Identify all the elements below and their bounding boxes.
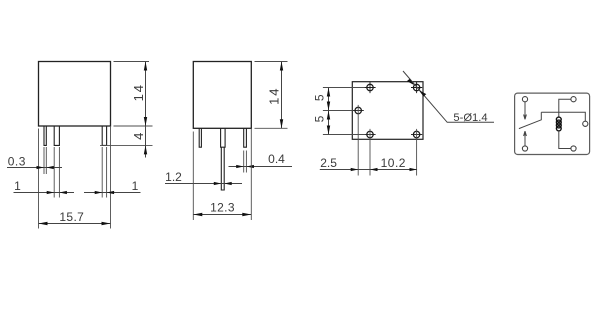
- extension line body left edge: [38, 129, 40, 229]
- wire from blade to right terminal: [541, 112, 585, 121]
- pin C (1mm) front view: [102, 126, 106, 145]
- dimension line 14 side view: [281, 62, 283, 129]
- extension line bottom right side body: [255, 127, 288, 129]
- dimension 0.3 arrows: [37, 166, 54, 169]
- dimension 1 right arrows: [95, 191, 114, 194]
- arrow right at 417: [410, 168, 418, 171]
- arrows of 5/5 dimension: [327, 88, 330, 135]
- svg-text:12.3: 12.3: [210, 201, 235, 215]
- dimension 15.7 arrows: [39, 222, 111, 225]
- extension line top right of front body: [114, 61, 150, 63]
- svg-text:1: 1: [132, 179, 139, 193]
- terminal circle top-left: [522, 97, 527, 102]
- arrow up side 14: [280, 62, 283, 71]
- extension line bottom of front body (right): [114, 125, 153, 127]
- svg-text:0.3: 0.3: [8, 154, 26, 168]
- relay body front view: [39, 62, 111, 127]
- hole H4 bottom-left: [364, 131, 375, 137]
- extension lines below pin B: [54, 147, 59, 198]
- extension lines below pin C: [102, 147, 106, 198]
- extension line from H3 to left: [323, 110, 353, 112]
- arrow left toward 370: [370, 168, 378, 171]
- relay coil: [556, 117, 561, 131]
- NO contact wire with arrow (from bottom-left terminal): [524, 131, 526, 146]
- svg-text:10.2: 10.2: [381, 156, 406, 170]
- pin B (1mm) front view: [54, 126, 59, 145]
- dimension 0.4 arrows: [236, 165, 254, 168]
- svg-text:14: 14: [267, 87, 282, 105]
- extension line side body left: [192, 132, 194, 221]
- dimension 1 right line: [84, 192, 141, 194]
- wire from top-middle terminal to coil: [559, 99, 571, 117]
- dimension 0.3 leader line: [7, 167, 62, 169]
- NC contact wire with arrow (from top-left terminal): [524, 102, 526, 120]
- svg-text:5: 5: [313, 115, 327, 122]
- hole H3 vertical centerline extended to bottom dimension: [357, 105, 359, 176]
- svg-text:1.2: 1.2: [165, 170, 182, 184]
- dimension 12.3 line: [193, 214, 251, 216]
- side view left pin: [199, 128, 201, 147]
- side view middle pin wide part: [221, 128, 226, 147]
- svg-text:2.5: 2.5: [320, 156, 337, 170]
- svg-text:5: 5: [313, 94, 327, 101]
- svg-text:4: 4: [131, 133, 146, 140]
- relay body side view: [193, 62, 251, 129]
- leader line for 5-O1.4: [403, 71, 494, 122]
- svg-text:15.7: 15.7: [59, 210, 84, 224]
- extension lines below right pin: [244, 151, 247, 173]
- wire from coil to bottom-middle terminal: [559, 131, 571, 149]
- dimension 1 left arrows: [47, 191, 67, 194]
- leader arrow upper (pointing to hole): [407, 79, 415, 86]
- schematic enclosure box: [515, 93, 590, 154]
- dimension line 14 / 4 vertical: [145, 62, 147, 158]
- dimension 0.4 line: [229, 166, 293, 168]
- extension line body right edge: [110, 126, 112, 229]
- side view right pin: [244, 128, 247, 147]
- dimension line 5/5 vertical: [328, 88, 330, 135]
- arrow down at 126: [144, 117, 147, 126]
- extension line pin bottom (4mm): [100, 144, 153, 146]
- pin A (0.3mm) front view: [44, 126, 46, 145]
- hole H5 bottom-right: [411, 131, 422, 137]
- terminal circle top-middle: [571, 97, 576, 102]
- terminal circle bottom-middle: [571, 146, 576, 151]
- dimension 1.2 arrows: [214, 182, 232, 185]
- hole H2 top-right: [411, 82, 422, 93]
- extension line from H4 to left: [323, 134, 365, 136]
- pcb outline square: [352, 82, 423, 140]
- hole H3 mid-left: [353, 107, 364, 113]
- terminal circle right (common): [583, 121, 588, 126]
- leader arrow lower (pointing to hole): [419, 90, 427, 97]
- hole H1 top-left: [364, 82, 375, 93]
- svg-text:0.4: 0.4: [268, 152, 285, 166]
- arrow right toward 358.2: [351, 168, 359, 171]
- svg-text:14: 14: [131, 83, 146, 101]
- hole H5 vertical centerline extended to bottom dimension: [416, 129, 418, 176]
- terminal circle bottom-left: [522, 146, 527, 151]
- arrow up at 61.5: [144, 62, 147, 71]
- svg-text:5-Ø1.4: 5-Ø1.4: [453, 112, 487, 124]
- dimension 1.2 line: [165, 183, 242, 185]
- dimension 15.7 line: [39, 223, 111, 225]
- dimension 1 left line: [14, 192, 75, 194]
- extension line top right side body: [255, 61, 288, 63]
- extension line from H1 to left: [323, 87, 365, 89]
- arrow up at 145.4 (from below): [144, 145, 147, 154]
- hole H4 vertical centerline extended to bottom dimension: [369, 129, 371, 176]
- side view middle pin narrow part: [221, 147, 224, 190]
- extension line side body right: [250, 128, 252, 220]
- dimension 12.3 arrows: [193, 213, 251, 216]
- bottom dimension line 2.5 / 10.2: [320, 169, 417, 171]
- movable contact blade: [519, 112, 541, 128]
- extension lines below pin A: [44, 147, 46, 174]
- arrow down side 14: [280, 119, 283, 128]
- svg-text:1: 1: [14, 179, 21, 193]
